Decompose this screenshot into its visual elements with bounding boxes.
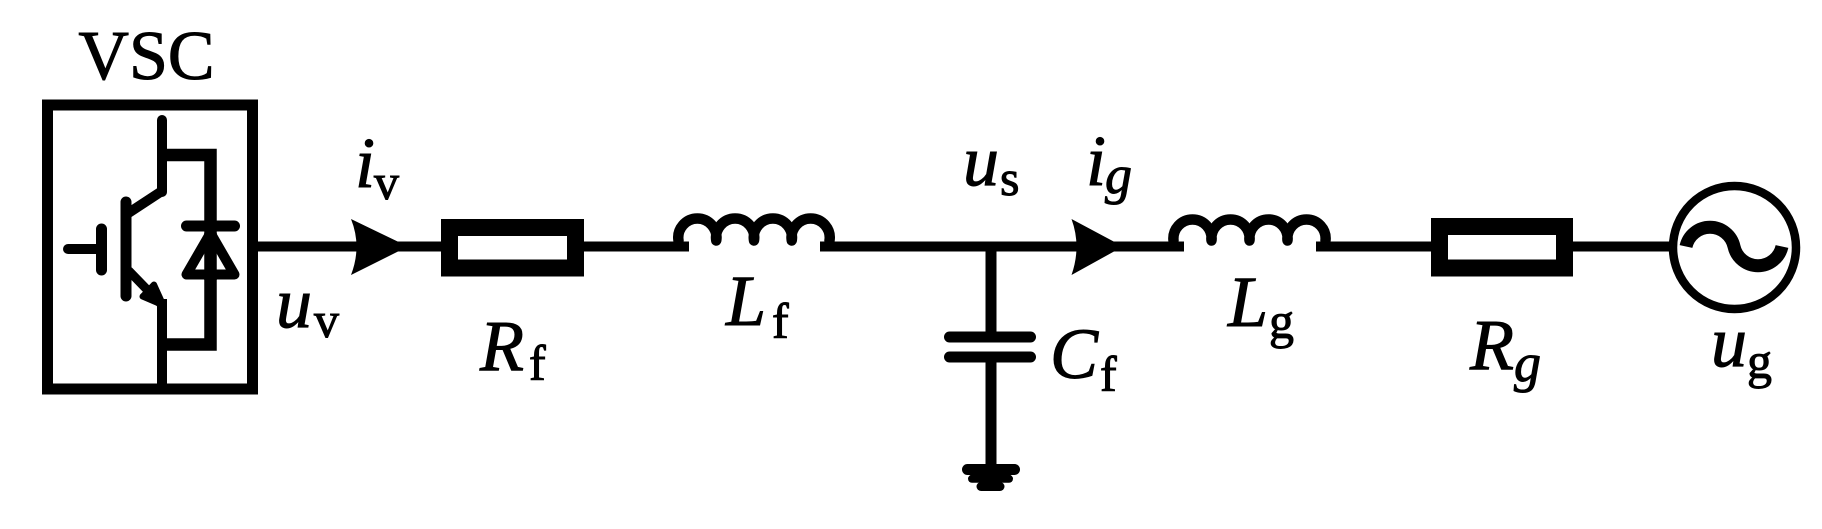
svg-text:g: g [1514, 333, 1541, 393]
svg-text:u: u [963, 121, 999, 201]
wire collector lead [157, 120, 167, 192]
svg-text:C: C [1050, 314, 1099, 394]
svg-text:f: f [529, 335, 546, 391]
resistor R_f [450, 228, 576, 269]
wire VSC output to R_f [252, 242, 441, 252]
svg-text:s: s [1000, 150, 1019, 206]
svg-text:g: g [1747, 333, 1772, 389]
wire emitter lead [157, 299, 167, 389]
wire R_f to L_f [584, 242, 689, 252]
wire collector diagonal [127, 191, 162, 214]
wire L_f to node u_s to L_g [820, 242, 1184, 252]
wire through diode [204, 233, 217, 280]
svg-text:L: L [725, 261, 766, 341]
ac source u_g sine wave [1686, 227, 1782, 265]
wire emitter diagonal [129, 271, 161, 304]
svg-text:L: L [1227, 262, 1268, 342]
svg-text:f: f [1100, 346, 1117, 402]
svg-text:f: f [772, 293, 789, 349]
wire L_g to R_g [1316, 242, 1431, 252]
transistor Q1 body bar [121, 202, 132, 296]
transistor Q1 gate bar [96, 229, 107, 270]
wire C_f to ground [986, 360, 997, 467]
svg-text:i: i [1086, 121, 1106, 201]
ac source u_g circle [1673, 186, 1796, 309]
svg-text:R: R [1469, 305, 1514, 385]
svg-text:v: v [374, 154, 399, 210]
current arrow i_g [1072, 219, 1124, 275]
wire gate lead [68, 244, 101, 254]
svg-text:v: v [314, 292, 339, 348]
capacitor C_f bottom plate [950, 352, 1031, 363]
transistor Q1 emitter arrow [143, 285, 164, 306]
converter VSC box outline [48, 105, 253, 389]
svg-text:i: i [355, 123, 375, 203]
current arrow i_v [351, 219, 408, 275]
svg-text:g: g [1105, 145, 1132, 205]
wire node u_s down to C_f [986, 247, 997, 335]
svg-text:u: u [276, 263, 312, 343]
wire R_g to source u_g [1573, 242, 1670, 252]
ground [968, 470, 1015, 487]
capacitor C_f top plate [950, 332, 1031, 343]
wire diode branch [162, 155, 211, 345]
inductor L_f [678, 218, 829, 240]
svg-text:u: u [1711, 302, 1747, 382]
resistor R_g [1440, 227, 1565, 269]
svg-text:VSC: VSC [78, 18, 214, 95]
inductor L_g [1173, 219, 1325, 240]
svg-text:g: g [1269, 293, 1294, 349]
svg-text:R: R [479, 306, 524, 386]
diode D1 cathode bar [187, 221, 235, 232]
diode D1 triangle [187, 233, 235, 275]
